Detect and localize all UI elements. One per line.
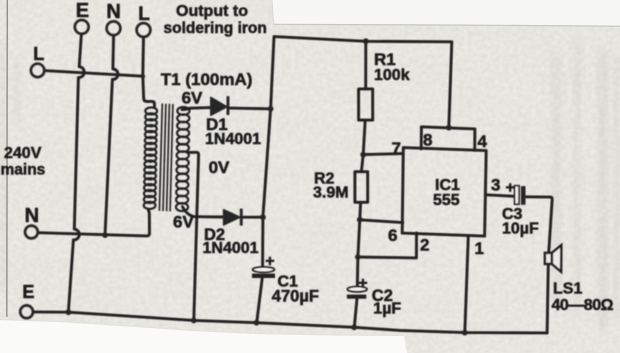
svg-text:E: E <box>22 282 34 302</box>
svg-text:LS1: LS1 <box>553 280 582 297</box>
svg-text:+: + <box>506 179 515 196</box>
svg-text:1N4001: 1N4001 <box>203 240 259 257</box>
svg-text:2: 2 <box>420 236 429 255</box>
svg-text:4: 4 <box>478 132 488 151</box>
svg-text:6V: 6V <box>182 88 203 107</box>
svg-text:1N4001: 1N4001 <box>205 131 261 148</box>
svg-text:mains: mains <box>1 162 46 179</box>
svg-text:soldering iron: soldering iron <box>164 20 267 37</box>
svg-text:0V: 0V <box>209 158 230 177</box>
svg-text:240V: 240V <box>4 145 42 162</box>
svg-text:+: + <box>265 253 274 270</box>
svg-text:L: L <box>138 4 150 25</box>
svg-text:6V: 6V <box>173 213 194 232</box>
svg-text:L: L <box>33 44 44 64</box>
svg-text:6: 6 <box>388 226 397 245</box>
svg-text:470µF: 470µF <box>272 288 319 306</box>
svg-text:40—80Ω: 40—80Ω <box>552 297 614 314</box>
svg-text:1µF: 1µF <box>373 301 401 318</box>
svg-text:3.9M: 3.9M <box>313 185 349 202</box>
svg-text:+: + <box>358 275 367 292</box>
svg-text:N: N <box>106 1 120 23</box>
svg-text:T1 (100mA): T1 (100mA) <box>161 70 253 89</box>
svg-text:10µF: 10µF <box>502 221 539 238</box>
svg-text:E: E <box>76 0 89 22</box>
svg-text:N: N <box>25 205 39 227</box>
svg-text:3: 3 <box>491 176 500 195</box>
svg-text:R1: R1 <box>374 50 396 69</box>
svg-text:Output to: Output to <box>176 3 248 20</box>
svg-text:8: 8 <box>423 131 432 150</box>
svg-text:1: 1 <box>475 239 484 258</box>
svg-text:100k: 100k <box>374 67 410 84</box>
svg-text:7: 7 <box>392 139 401 158</box>
svg-text:555: 555 <box>433 192 460 209</box>
